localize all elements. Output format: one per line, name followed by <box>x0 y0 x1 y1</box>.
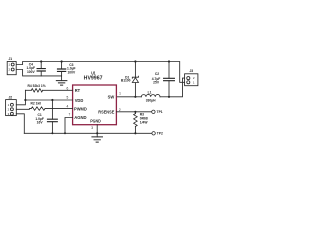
svg-text:AGND: AGND <box>74 115 87 121</box>
junction node VIN at C3 <box>61 60 63 62</box>
IC U1 reference labels <box>84 70 103 81</box>
svg-text:330µH: 330µH <box>146 99 156 103</box>
svg-text:L1: L1 <box>148 91 152 95</box>
svg-text:R2 1k0: R2 1k0 <box>31 101 42 105</box>
connector J2 labels <box>8 95 13 116</box>
resistor R4 <box>25 89 72 92</box>
wire AGND to ground rail <box>65 118 73 134</box>
op IC U1 HV9967 <box>73 85 117 125</box>
wire ground rail <box>24 132 152 134</box>
capacitor C1 <box>48 100 58 133</box>
diode D1 <box>132 62 138 97</box>
svg-text:B1100: B1100 <box>121 79 131 83</box>
wire J2 pin3 to ground rail <box>16 114 24 134</box>
svg-text:C2: C2 <box>155 72 159 76</box>
resistor R4 label <box>28 84 46 88</box>
connector J3 labels <box>189 69 194 85</box>
test point TP1 <box>152 110 155 113</box>
wire top rail D1 to C2 <box>135 61 169 63</box>
svg-text:1: 1 <box>119 91 121 95</box>
svg-text:J3: J3 <box>189 69 193 73</box>
ground (PGND) <box>92 133 103 142</box>
junction node VDD at C1 top <box>51 99 53 101</box>
resistor R3 <box>134 112 138 134</box>
junction node SW (D1 anode / L1) <box>134 96 136 98</box>
inductor L1 <box>135 94 169 96</box>
junction node GND at C1 bottom <box>51 132 53 134</box>
svg-text:J1: J1 <box>8 57 12 61</box>
wire J2 pin1 riser to R4 <box>16 90 25 105</box>
wire top rail C2 to J3 pin1 <box>169 62 185 83</box>
test point TP2 <box>152 132 155 135</box>
svg-text:100V: 100V <box>27 70 36 74</box>
junction node VDD at J2 riser <box>24 99 26 101</box>
capacitor C3 value label <box>67 63 76 74</box>
wire L1 to J3 pin2 <box>169 78 185 97</box>
wire top rail from J1 pin1 to C4 node <box>16 62 41 65</box>
capacitor C4 value label <box>27 62 36 73</box>
connector J1 labels <box>8 57 12 72</box>
svg-text:16V: 16V <box>37 121 44 125</box>
svg-text:7: 7 <box>69 113 71 117</box>
svg-text:PGND: PGND <box>90 119 101 125</box>
junction node VIN at C4 <box>40 60 42 62</box>
capacitor C3 <box>58 62 66 76</box>
junction node LED- at C2 bottom <box>168 96 170 98</box>
capacitor C2 <box>164 62 175 97</box>
wire top rail C4 to C3 <box>41 61 61 63</box>
wire J2 pin2 to R2 <box>16 108 31 111</box>
junction node GND at R3 bottom <box>134 132 136 134</box>
capacitor C2 value label <box>152 72 161 84</box>
junction node VIN at C2 top <box>168 60 170 62</box>
svg-text:TP1: TP1 <box>157 110 163 114</box>
capacitor C1 value label <box>35 113 44 125</box>
svg-text:6: 6 <box>67 86 69 90</box>
wire J1 pin2 to cap bottom rail <box>16 70 61 76</box>
resistor R2 label <box>31 101 42 105</box>
ground (input) <box>56 76 67 85</box>
wire SW pin to D1 node <box>116 96 135 98</box>
svg-text:RT: RT <box>75 88 80 94</box>
junction node GND at AGND drop <box>64 132 66 134</box>
junction node GND at PGND <box>96 132 98 134</box>
wire RSENSE to TP1 <box>116 111 151 113</box>
wire VDD line <box>25 99 72 101</box>
connector J2 <box>6 100 17 116</box>
connector J1 <box>7 62 16 75</box>
connector J3 <box>185 74 198 86</box>
svg-text:VDD: VDD <box>75 98 84 104</box>
svg-text:25V: 25V <box>153 80 160 84</box>
svg-text:PWMD: PWMD <box>74 107 87 113</box>
svg-text:100V: 100V <box>67 70 76 74</box>
capacitor C4 <box>37 62 45 76</box>
svg-text:SW: SW <box>108 95 115 101</box>
svg-text:5: 5 <box>67 96 69 100</box>
wire top rail C3 to D1 <box>62 61 136 63</box>
resistor R2 <box>31 107 72 110</box>
svg-text:TP2: TP2 <box>157 132 163 136</box>
diode D1 label <box>121 76 131 83</box>
wire PGND stub <box>96 125 98 134</box>
svg-text:RSENSE: RSENSE <box>98 110 114 116</box>
svg-text:R4 52k3 1%: R4 52k3 1% <box>28 84 46 88</box>
svg-text:1/4W: 1/4W <box>140 121 149 125</box>
inductor L1 labels <box>146 91 156 103</box>
svg-text:3: 3 <box>91 126 93 130</box>
junction node RSENSE at R3 top <box>134 111 136 113</box>
junction node VIN at D1 cathode <box>134 60 136 62</box>
svg-text:4: 4 <box>67 105 69 109</box>
resistor R3 labels <box>140 112 149 124</box>
svg-text:J2: J2 <box>8 95 12 99</box>
svg-text:2: 2 <box>119 108 121 112</box>
svg-text:HV9967: HV9967 <box>84 75 103 81</box>
